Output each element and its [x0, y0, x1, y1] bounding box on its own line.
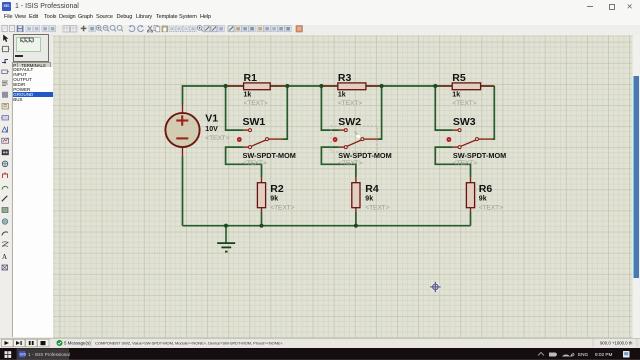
wire SW3 top throw — [435, 86, 452, 130]
list box — [12, 67, 55, 337]
svg-text:<TEXT>: <TEXT> — [338, 160, 362, 167]
app button — [17, 348, 69, 360]
svg-text:9:02 PM: 9:02 PM — [595, 352, 613, 357]
svg-text:R1: R1 — [244, 72, 258, 84]
resistor R4 — [352, 177, 390, 212]
svg-text:<TEXT>: <TEXT> — [365, 204, 389, 211]
wire SW1 bottom throw to R2 — [226, 147, 262, 177]
svg-text:900.0 +1000.0 th: 900.0 +1000.0 th — [600, 340, 633, 345]
taskbar — [0, 348, 640, 360]
wire bottom rail — [183, 224, 471, 226]
wire SW2 top throw — [321, 86, 338, 130]
selection box SW2 — [331, 126, 378, 152]
svg-text:ISIS: ISIS — [20, 352, 27, 356]
wire V1 bottom — [182, 156, 184, 225]
svg-text:1k: 1k — [244, 91, 252, 98]
junction node E (rail / SW2 pole) — [380, 83, 384, 87]
resistor R3 — [321, 72, 381, 107]
toolbar — [0, 25, 640, 36]
svg-text:10V: 10V — [205, 126, 218, 133]
right scrollbar — [633, 35, 640, 338]
mouse cursor — [355, 131, 361, 139]
svg-text:1k: 1k — [452, 91, 460, 98]
svg-text:<TEXT>: <TEXT> — [243, 160, 267, 167]
object selector panel — [11, 35, 52, 338]
svg-text:V1: V1 — [205, 112, 218, 124]
svg-text:<TEXT>: <TEXT> — [452, 99, 476, 106]
wire SW3 pole to rail — [492, 86, 494, 139]
resistor R6 — [466, 177, 503, 212]
svg-text:5 Message(s): 5 Message(s) — [64, 340, 91, 345]
junction node D (rail / SW2 throw) — [319, 83, 323, 87]
ground — [217, 223, 235, 251]
svg-text:SW-SPDT-MOM: SW-SPDT-MOM — [243, 150, 296, 159]
svg-text:R4: R4 — [365, 182, 379, 194]
svg-text:R3: R3 — [338, 72, 352, 84]
svg-text:<TEXT>: <TEXT> — [270, 204, 294, 211]
left mode toolbar — [0, 35, 11, 338]
resistor R1 — [226, 72, 288, 107]
wire SW2 pole to rail — [378, 86, 382, 139]
wire SW2 bottom throw to R4 — [321, 147, 356, 177]
svg-text:<TEXT>: <TEXT> — [338, 99, 362, 106]
switch SW3 SPDT-MOM — [447, 115, 507, 166]
junction node F (bottom rail / R4) — [354, 223, 358, 227]
P button + TERMINALS header — [12, 62, 19, 69]
junction node G (rail / SW3 throw) — [433, 83, 437, 87]
svg-text:ENG: ENG — [578, 352, 589, 357]
svg-text:9k: 9k — [479, 195, 487, 202]
resistor R5 — [435, 72, 494, 107]
window controls — [587, 6, 593, 7]
svg-text:SW3: SW3 — [453, 115, 476, 127]
wire SW1 pole to rail — [283, 86, 288, 139]
svg-text:R5: R5 — [452, 72, 466, 84]
svg-text:9k: 9k — [365, 195, 373, 202]
status bar — [0, 338, 640, 349]
svg-text:R2: R2 — [270, 182, 284, 194]
svg-text:1 - ISIS Professional: 1 - ISIS Professional — [28, 352, 70, 357]
svg-text:COMPONENT SW2, Value=SW-SPDT-M: COMPONENT SW2, Value=SW-SPDT-MOM, Module… — [95, 340, 284, 345]
svg-text:<TEXT>: <TEXT> — [479, 204, 503, 211]
svg-text:SW1: SW1 — [243, 115, 266, 127]
svg-text:SW-SPDT-MOM: SW-SPDT-MOM — [453, 150, 506, 159]
svg-text:A: A — [2, 253, 7, 261]
svg-text:R6: R6 — [479, 182, 493, 194]
svg-text:SW2: SW2 — [338, 115, 361, 127]
svg-text:<TEXT>: <TEXT> — [244, 99, 268, 106]
wire SW3 bottom throw to R6 — [435, 147, 470, 177]
voltage source V1 — [165, 104, 229, 156]
wire R2 bottom — [261, 212, 263, 226]
wire top rail — [183, 86, 495, 105]
title bar — [0, 0, 640, 13]
svg-text:1k: 1k — [338, 91, 346, 98]
svg-text:<TEXT>: <TEXT> — [453, 160, 477, 167]
switch SW2 SPDT-MOM — [333, 115, 392, 166]
svg-text:<TEXT>: <TEXT> — [205, 135, 229, 142]
canvas — [53, 35, 633, 338]
wire SW1 top throw — [226, 86, 243, 130]
wire R6 bottom — [470, 212, 472, 226]
junction node A (rail / SW1 throw) — [224, 83, 228, 87]
tray — [538, 352, 544, 355]
junction node C (bottom rail / R2) — [259, 223, 263, 227]
junction node B (rail / SW1 pole) — [285, 83, 289, 87]
svg-text:9k: 9k — [270, 195, 278, 202]
switch SW1 SPDT-MOM — [237, 115, 296, 166]
menu bar — [0, 13, 640, 25]
start logo — [5, 351, 12, 358]
resistor R2 — [257, 177, 294, 212]
origin marker — [431, 282, 440, 291]
VCR simulation buttons — [2, 339, 50, 347]
wire R4 bottom — [355, 212, 357, 226]
preview window — [13, 34, 49, 62]
